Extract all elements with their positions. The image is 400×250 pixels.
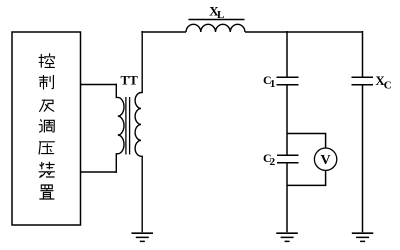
svg-text:1: 1 xyxy=(270,78,276,90)
label 置 (control box text char 7) xyxy=(40,185,54,199)
wire voltmeter loop top xyxy=(287,134,326,149)
wire C1 branch drop xyxy=(286,31,288,77)
capacitor C2 xyxy=(277,155,299,163)
label 控 (control box text char 1) xyxy=(39,54,55,68)
wire XC branch drop xyxy=(362,31,364,77)
transformer TT secondary winding xyxy=(135,31,142,232)
wire XC to ground xyxy=(362,85,364,232)
voltmeter V1 body xyxy=(314,148,336,170)
inductor XL bar xyxy=(189,19,245,21)
wire voltmeter loop bottom xyxy=(287,170,326,185)
inductor XL coil xyxy=(186,24,245,32)
wire C2 bottom to ground xyxy=(286,163,288,232)
label 装 (control box text char 6) xyxy=(39,162,54,177)
label 调 (control box text char 4) xyxy=(39,120,54,132)
svg-text:L: L xyxy=(217,9,224,21)
svg-text:C: C xyxy=(384,79,392,91)
wire C1 to C2 xyxy=(286,85,288,155)
control box outline xyxy=(12,32,81,225)
transformer TT primary winding xyxy=(116,84,124,173)
capacitor C1 xyxy=(277,77,299,85)
ground (capacitor branch) xyxy=(276,233,298,241)
svg-text:V: V xyxy=(321,153,331,168)
label 及 (control box text char 3) xyxy=(40,100,54,111)
ground (transformer secondary) xyxy=(132,233,154,241)
label 制 (control box text char 2) xyxy=(39,75,53,89)
svg-text:2: 2 xyxy=(270,156,276,168)
ground (XC branch) xyxy=(352,233,374,241)
svg-text:TT: TT xyxy=(121,73,139,88)
transformer TT core xyxy=(126,97,130,155)
capacitor XC xyxy=(352,77,374,85)
label 压 (control box text char 5) xyxy=(39,142,54,154)
wire main top rail right of inductor xyxy=(245,31,363,33)
wire main top rail left of inductor xyxy=(141,31,186,33)
wire box to transformer primary top xyxy=(81,84,117,86)
wire box to transformer primary bottom xyxy=(81,171,117,173)
